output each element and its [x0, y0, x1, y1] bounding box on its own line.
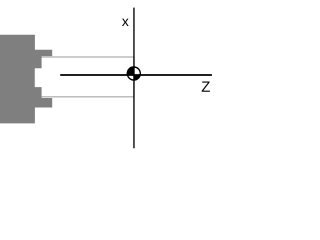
origin symbol (datum circle)	[125, 65, 143, 83]
label Z	[202, 81, 210, 91]
workpiece (bar outline)	[34, 57, 134, 97]
chuck	[0, 35, 52, 124]
wire x axis	[133, 8, 135, 149]
label x	[122, 19, 129, 26]
wire Z axis	[60, 74, 212, 76]
